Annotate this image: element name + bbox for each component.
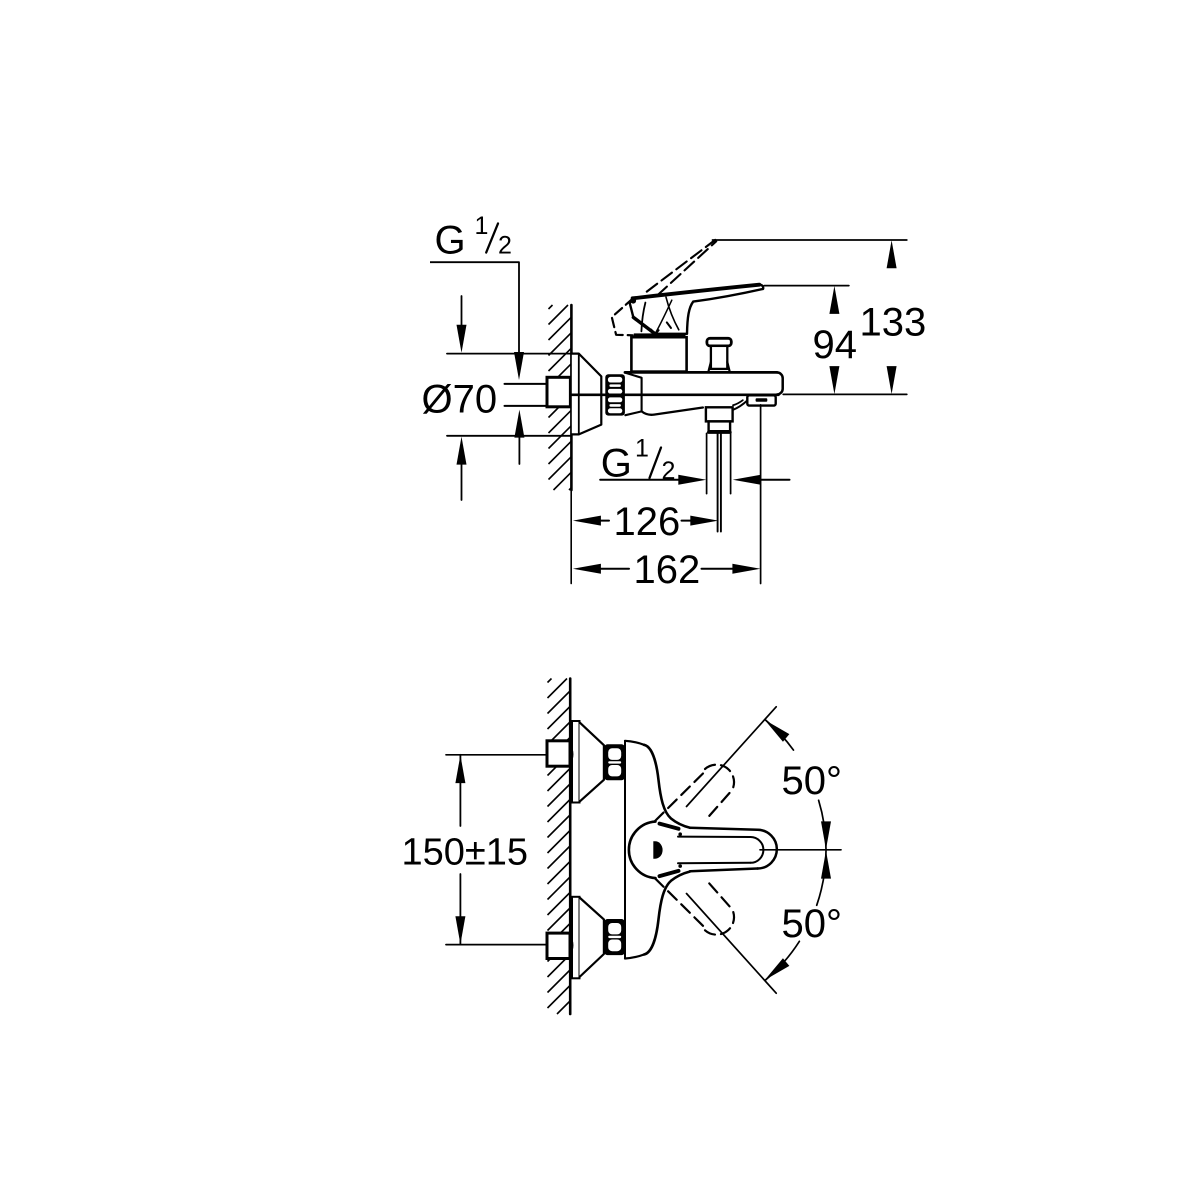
body bottom / axis line [572, 393, 779, 396]
escutcheon base edge [578, 354, 580, 435]
hose connector upper [706, 407, 733, 421]
body right cap (spout end) [777, 372, 783, 394]
square fitting body [547, 377, 570, 407]
162 extension line (spout tip) [760, 405, 762, 584]
lever end blob [653, 841, 662, 858]
126 arrow right [690, 516, 718, 526]
150 arrow down [455, 916, 465, 944]
wall line (plan view) [569, 679, 572, 1015]
svg-text:150±15: 150±15 [402, 832, 529, 874]
G1/2 dim shaft right [760, 479, 789, 481]
diverter knob cap [707, 338, 731, 346]
neck between nut and body [625, 373, 641, 412]
handle top edge (thick) [633, 285, 760, 299]
handle interior dash [667, 322, 671, 328]
Ø70 bottom arrow tail [461, 463, 463, 500]
Ø70 dim line bottom [447, 435, 571, 437]
dashed raised lever edge 1 [647, 240, 715, 292]
handle interior curve 1 [641, 303, 645, 332]
dashed lever rotated down 50deg [655, 878, 706, 929]
escutcheon cone top (plan) [580, 722, 604, 801]
dashed raised lever edge 2 [657, 241, 716, 295]
upper 50deg arc segment 2 [819, 800, 826, 849]
G1/2 dim shaft left [600, 479, 679, 481]
svg-text:94: 94 [813, 323, 858, 367]
dimension 150+-15 [459, 755, 461, 826]
G1/2 leader line [430, 262, 519, 353]
svg-text:G: G [435, 218, 466, 262]
Ø70 top arrow tail [461, 296, 463, 327]
Ø70 arrow up [457, 437, 467, 465]
svg-text:1: 1 [475, 212, 489, 240]
G1/2 extension line right [730, 433, 732, 493]
svg-text:126: 126 [614, 500, 681, 544]
lower arc arrowhead at 0deg end [821, 851, 831, 879]
wall extension line down to 162 dim [570, 490, 572, 584]
133 arrow down [887, 366, 897, 394]
aerator [747, 395, 775, 405]
square fitting top (plan) [547, 741, 570, 766]
pivot dot 1 [678, 832, 682, 836]
concealed square fitting (side view) [570, 386, 573, 405]
150 extension line top [446, 754, 570, 756]
cartridge collar [631, 337, 686, 371]
handle lever (solid) [630, 285, 764, 334]
G1/2 fraction slash 2 [650, 448, 662, 479]
escutcheon plate top (plan) [572, 721, 580, 803]
upper arc arrowhead at 50deg end [761, 716, 789, 742]
spout lip curve outer [733, 400, 748, 410]
diverter knob base flare [709, 362, 730, 371]
G1/2 arrow left [733, 475, 761, 485]
shower hose left edge [717, 433, 719, 531]
162 shaft right [702, 568, 733, 570]
handle interior curve 2 [666, 297, 679, 330]
lower arc arrowhead at -50deg end [761, 958, 789, 984]
hex union nut (side view) [605, 374, 625, 415]
Ø70 arrow down [457, 325, 467, 353]
housing waist curve bottom [644, 872, 690, 955]
handle interior curve 3 [656, 300, 672, 332]
50deg reference line upper [687, 707, 777, 807]
lever inner top line [678, 836, 751, 838]
G1/2 pipe top edge [505, 383, 548, 385]
body plate edge (plan) [624, 741, 626, 958]
G1/2 arrow up at pipe [514, 410, 524, 438]
hex nut top (plan) [604, 744, 624, 780]
housing waist curve top [644, 745, 690, 828]
svg-text:133: 133 [860, 301, 927, 345]
hex nut bottom (plan) [604, 919, 624, 955]
lower 50deg arc segment 2 [765, 941, 799, 980]
lever-dome overlap bottom (thick) [660, 871, 679, 876]
162 arrow right [732, 564, 760, 574]
handle pivot blob [630, 298, 636, 304]
150 arrow up [455, 755, 465, 783]
G1/2 arrow down at pipe [514, 352, 524, 380]
150 extension line bottom [446, 944, 570, 946]
126 shaft left [601, 520, 609, 522]
126 shaft right [682, 520, 691, 522]
escutcheon cone (side view) [572, 354, 602, 435]
cartridge dome (plan) [629, 822, 656, 879]
body flange bottom edge [625, 955, 644, 959]
aerator slot [756, 398, 768, 401]
G1/2 extension line left [706, 433, 708, 493]
escutcheon plate bottom (plan) [572, 897, 580, 979]
G1/2 pipe bottom edge [505, 405, 548, 407]
wall line (side view) [570, 305, 573, 490]
dashed lever rotated up 50deg [655, 771, 706, 822]
svg-text:50°: 50° [782, 902, 843, 946]
133 arrow up [887, 240, 897, 268]
spout lip curve inner [733, 400, 743, 405]
svg-text:50°: 50° [782, 759, 843, 803]
upper 50deg arc segment 1 [765, 720, 793, 750]
wall hatching (plan view) [548, 679, 571, 1015]
lever top edge (plan) [690, 828, 758, 830]
94 arrow down [829, 366, 839, 394]
svg-text:Ø70: Ø70 [422, 378, 498, 422]
162 arrow left [573, 564, 601, 574]
lower 50deg arc segment 1 [817, 851, 826, 905]
94 arrow up [829, 286, 839, 314]
extension line bottom (spout) [783, 393, 907, 395]
V notch at collar top [651, 330, 658, 335]
126 arrow left [573, 516, 601, 526]
pivot dot 2 [678, 864, 682, 868]
extension line top (raised lever) [713, 239, 907, 241]
162 shaft left [601, 568, 629, 570]
G1/2 arrow right [678, 475, 706, 485]
hose connector lower [709, 421, 731, 431]
handle rear-bottom edge (thick) [633, 317, 654, 333]
Ø70 dim line top [447, 353, 571, 355]
extension line handle tip [764, 285, 849, 287]
G1/2 fraction slash [486, 224, 498, 253]
lever-dome overlap top (thick) [660, 824, 679, 829]
lever inner tip cap [751, 837, 764, 863]
lever bottom edge (plan) [690, 869, 758, 872]
lever tip cap (plan) [758, 830, 777, 869]
wall hatching (side view) [549, 305, 572, 490]
G1/2 lower arrow tail [518, 437, 520, 464]
50deg reference line lower [687, 894, 777, 994]
horizontal reference line [760, 849, 841, 851]
upper arc arrowhead at 0deg end [821, 821, 831, 849]
svg-text:162: 162 [634, 548, 701, 592]
dashed raised lever rear tip [612, 298, 633, 335]
shower hose right edge [720, 433, 722, 531]
collar top band [634, 333, 686, 337]
body flange top edge [625, 741, 644, 745]
hose connector bottom edge [709, 431, 731, 434]
square fitting bottom (plan) [547, 933, 570, 958]
body top edge [625, 371, 777, 374]
diverter knob stem [711, 346, 727, 369]
spout skirt underside [642, 408, 703, 415]
svg-text:2: 2 [498, 232, 512, 260]
lever inner bottom line [678, 862, 751, 864]
escutcheon cone bottom (plan) [580, 898, 604, 978]
svg-text:1: 1 [635, 435, 649, 463]
